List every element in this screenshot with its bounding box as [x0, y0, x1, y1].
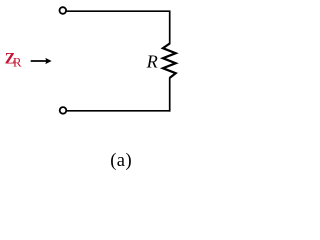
svg-text:R: R — [13, 55, 22, 70]
svg-text:(a): (a) — [110, 151, 132, 171]
svg-text:R: R — [146, 52, 158, 72]
